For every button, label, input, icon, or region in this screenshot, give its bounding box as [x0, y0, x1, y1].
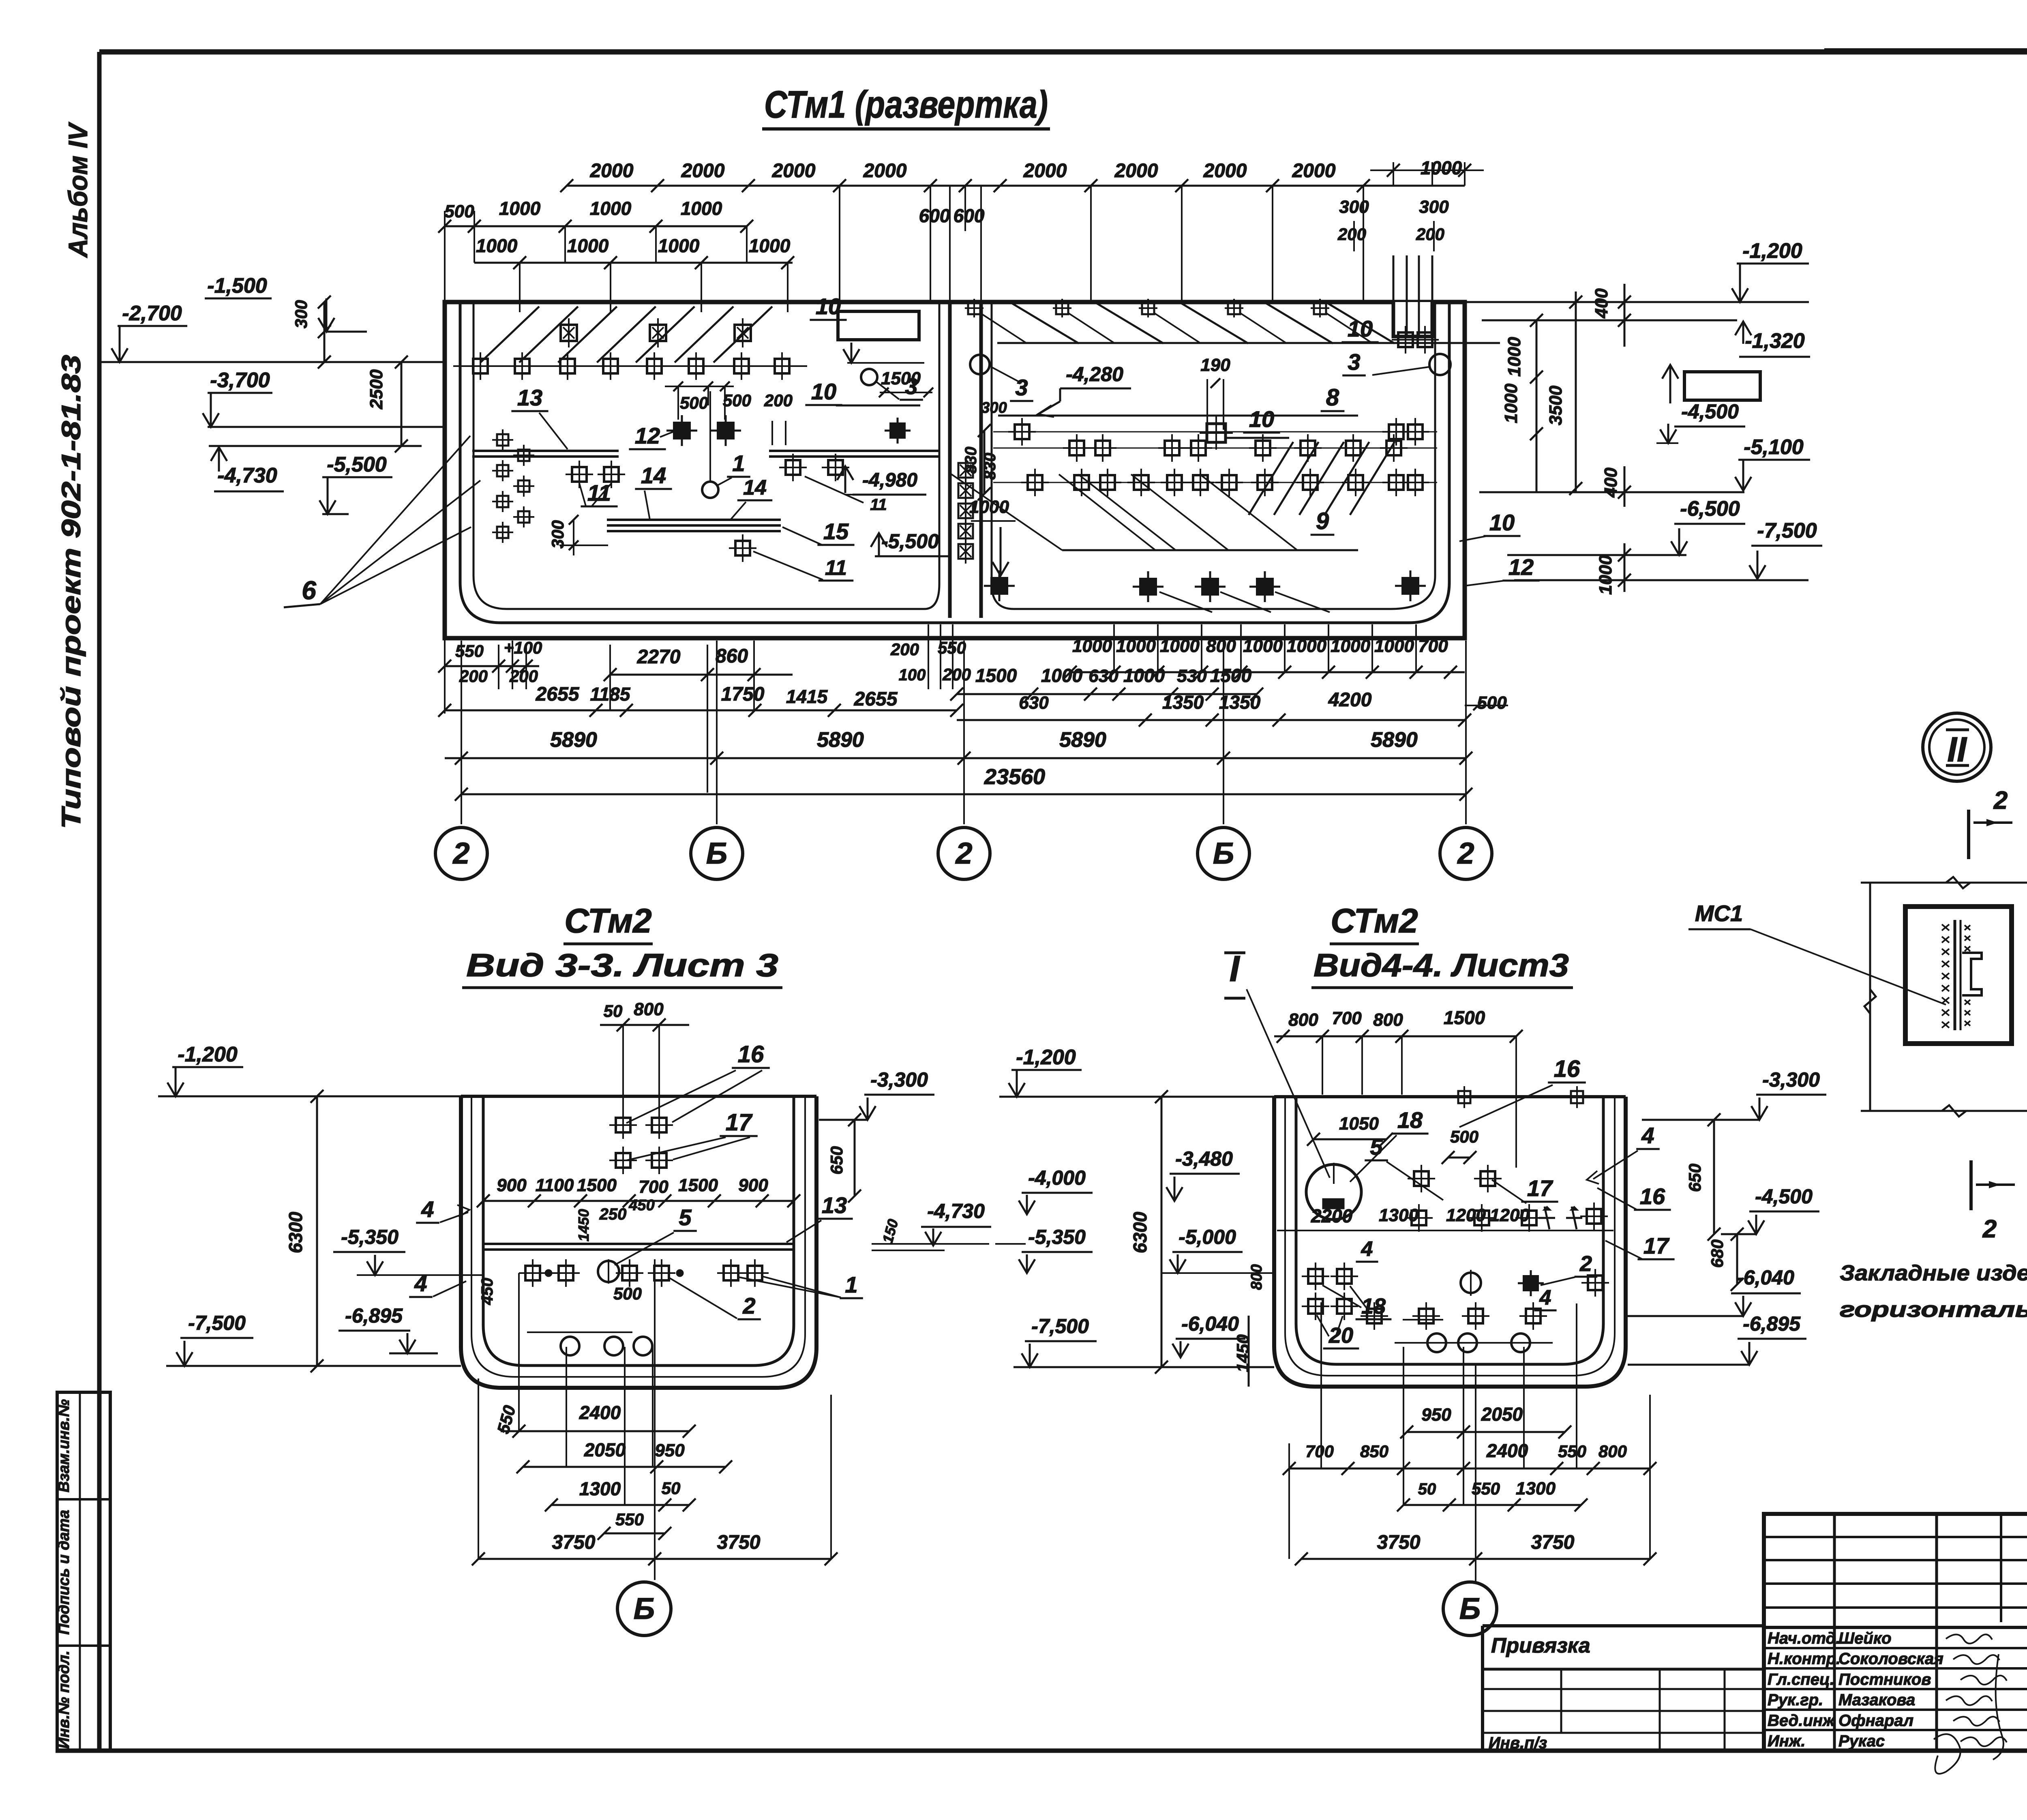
plates field right panel row0 — [1008, 416, 1429, 450]
svg-text:1000: 1000 — [476, 235, 518, 256]
svg-text:12: 12 — [1508, 554, 1534, 580]
svg-text:-5,350: -5,350 — [1028, 1226, 1086, 1248]
elevation -1,200 top right — [1465, 239, 1809, 302]
plates top view 4-4 — [1405, 1086, 1608, 1232]
elevation -2,700 — [99, 302, 445, 362]
svg-text:4: 4 — [1539, 1286, 1551, 1310]
svg-text:900: 900 — [497, 1175, 527, 1195]
elevation -6,895 view 4-4 — [1628, 1312, 1806, 1365]
svg-text:1500: 1500 — [678, 1175, 718, 1195]
label 17 view 4-4 — [1492, 1175, 1558, 1203]
svg-text:I: I — [1229, 949, 1240, 989]
svg-text:1500: 1500 — [1210, 665, 1252, 686]
svg-text:1500: 1500 — [1444, 1007, 1485, 1028]
svg-text:200: 200 — [1337, 225, 1366, 244]
label MC1 — [1688, 900, 1946, 1005]
dim row mid view 4-4 — [1277, 1205, 1613, 1230]
elevation -4,730 — [209, 446, 422, 491]
label 11 lower — [753, 551, 853, 581]
dim row 2000 series — [560, 157, 1484, 302]
svg-text:5890: 5890 — [550, 728, 597, 752]
svg-text:1000: 1000 — [1421, 157, 1462, 178]
svg-text:2400: 2400 — [1486, 1440, 1528, 1461]
top edge notch — [1393, 255, 1432, 337]
svg-text:-3,300: -3,300 — [870, 1068, 928, 1091]
dim 6300 view 3-3 — [285, 1090, 324, 1372]
svg-text:1000: 1000 — [1123, 665, 1165, 686]
plates column mid-left of joint — [958, 458, 973, 564]
label 13 — [511, 385, 568, 449]
dim 500 view 4-4 — [1442, 1127, 1478, 1164]
axis Б extension view 4-4 — [1475, 1364, 1476, 1582]
detail circle item I — [1306, 1163, 1361, 1220]
section mark 2 top — [1969, 787, 2012, 859]
svg-text:100: 100 — [899, 666, 926, 684]
svg-text:Типовой проект 902-1-81.83: Типовой проект 902-1-81.83 — [56, 355, 86, 829]
svg-text:1750: 1750 — [721, 684, 765, 705]
svg-text:МС1: МС1 — [1695, 900, 1743, 926]
svg-text:300: 300 — [981, 399, 1007, 416]
svg-text:400: 400 — [1601, 467, 1621, 498]
svg-text:200: 200 — [890, 640, 919, 659]
svg-text:10: 10 — [1249, 406, 1274, 432]
dim 500 500 item 12 — [665, 382, 751, 420]
svg-text:13: 13 — [517, 385, 542, 410]
svg-text:650: 650 — [1685, 1164, 1704, 1192]
svg-text:-5,000: -5,000 — [1178, 1226, 1236, 1248]
titleblock signatures — [1934, 1634, 2007, 1774]
bar item 13 right — [769, 451, 939, 457]
svg-text:2000: 2000 — [590, 160, 634, 182]
svg-text:800: 800 — [1288, 1010, 1318, 1030]
svg-text:Рук.гр.: Рук.гр. — [1768, 1691, 1823, 1709]
svg-text:1000: 1000 — [1504, 337, 1524, 377]
label 10 right panel top — [1341, 316, 1500, 343]
svg-text:2655: 2655 — [536, 684, 580, 705]
svg-text:2000: 2000 — [1203, 160, 1247, 182]
svg-text:1000: 1000 — [590, 198, 632, 219]
elevation -3,300 view 4-4 — [1642, 1068, 1826, 1120]
svg-text:2200: 2200 — [1311, 1205, 1353, 1226]
svg-text:1500: 1500 — [577, 1175, 617, 1195]
bottom dims mid cluster — [890, 624, 971, 689]
label 9 — [1062, 508, 1358, 550]
title СТм2 left — [564, 902, 653, 944]
dim row top view 4-4 — [1274, 1007, 1523, 1168]
svg-text:550: 550 — [455, 641, 484, 660]
plates row1 view 4-4 — [1302, 1263, 1609, 1297]
svg-text:-4,280: -4,280 — [1066, 363, 1123, 386]
plates pair under right bar — [779, 454, 849, 481]
svg-text:2: 2 — [1993, 787, 2008, 815]
holes circles view 4-4 — [1395, 1320, 1553, 1352]
embedded rectangle -4,500 — [1656, 365, 1760, 443]
left elevations view 3-3 — [158, 1043, 461, 1096]
dim 50 800 top view 3-3 — [600, 999, 689, 1119]
svg-text:800: 800 — [1598, 1442, 1627, 1461]
svg-text:500: 500 — [613, 1284, 642, 1303]
svg-text:5: 5 — [679, 1205, 692, 1230]
svg-text:3500: 3500 — [1546, 386, 1566, 425]
detail mark II circle — [1923, 713, 1991, 781]
elevation -4,980 — [805, 466, 926, 514]
left elevations view 4-4 — [999, 1046, 1274, 1097]
plates under top edge right panel — [965, 299, 1373, 343]
wall panel СТм1 outline — [445, 302, 1465, 638]
svg-text:1200: 1200 — [1446, 1205, 1486, 1225]
svg-text:1000: 1000 — [969, 497, 1009, 517]
elevation -4,730 view 3-3 — [872, 1200, 991, 1250]
svg-text:700: 700 — [1418, 636, 1448, 656]
svg-text:17: 17 — [1527, 1175, 1553, 1201]
svg-text:5890: 5890 — [1371, 728, 1418, 752]
svg-text:11: 11 — [825, 556, 847, 580]
svg-text:1000: 1000 — [1331, 636, 1370, 656]
svg-text:2000: 2000 — [1292, 160, 1336, 182]
plates field right panel row2 — [1021, 469, 1429, 496]
svg-text:-4,500: -4,500 — [1755, 1185, 1813, 1208]
svg-text:1300: 1300 — [579, 1478, 621, 1499]
elevation -3,300 view 3-3 — [819, 1068, 934, 1120]
axis mark 2 — [435, 827, 487, 879]
svg-text:-4,730: -4,730 — [927, 1200, 985, 1222]
svg-text:-4,000: -4,000 — [1028, 1166, 1086, 1189]
svg-text:16: 16 — [1554, 1056, 1580, 1082]
svg-text:1000: 1000 — [1116, 636, 1156, 656]
dim 400 vertical right lower — [1601, 466, 1631, 507]
svg-text:1100: 1100 — [536, 1175, 574, 1195]
svg-text:Б: Б — [1213, 836, 1234, 870]
svg-text:горизонтальной арматуре стен.: горизонтальной арматуре стен. — [1840, 1297, 2027, 1322]
crossed plates in hatch — [561, 318, 751, 347]
label 17 view 3-3 — [626, 1109, 758, 1160]
svg-text:50: 50 — [604, 1001, 623, 1020]
axis extension lines — [461, 641, 1466, 824]
anchor circle item 3 left — [970, 355, 1033, 401]
label 3 left panel — [861, 369, 923, 400]
shelf line view 3-3 — [483, 1244, 794, 1250]
dim 300 bar — [548, 515, 608, 555]
axis mark Б — [1443, 1582, 1497, 1636]
label 10 right panel centre — [1224, 406, 1289, 438]
blackened plate near joint — [885, 418, 911, 444]
svg-text:Постников: Постников — [1838, 1670, 1931, 1688]
svg-text:-4,500: -4,500 — [1681, 400, 1739, 423]
svg-text:2000: 2000 — [1114, 160, 1158, 182]
elevation -7,500 view 4-4 — [1013, 1315, 1274, 1367]
label 1 top — [717, 450, 750, 486]
svg-text:Вед.инж: Вед.инж — [1768, 1712, 1836, 1730]
dim 1500 mid — [879, 369, 933, 397]
svg-text:200: 200 — [1416, 225, 1444, 244]
svg-text:530: 530 — [1177, 666, 1207, 686]
label 17 view 4-4 right — [1605, 1233, 1675, 1259]
svg-text:Б: Б — [1459, 1592, 1481, 1625]
svg-text:600: 600 — [954, 205, 985, 226]
svg-text:2400: 2400 — [579, 1402, 621, 1423]
blackened plates bottom right panel — [984, 570, 1426, 602]
plates pair item 11 — [566, 461, 625, 488]
title block outer — [1764, 1514, 2027, 1751]
svg-text:800: 800 — [1206, 636, 1236, 656]
label 5 view 3-3 — [615, 1205, 697, 1265]
through lines right panel rows — [993, 432, 1437, 482]
svg-text:Подпись и дата: Подпись и дата — [56, 1510, 73, 1635]
svg-text:-5,500: -5,500 — [881, 530, 939, 553]
svg-text:Мазакова: Мазакова — [1838, 1691, 1915, 1709]
elevation -3,700 — [203, 369, 445, 427]
label 10 left panel top — [810, 294, 846, 320]
svg-text:Н.контр.: Н.контр. — [1768, 1650, 1841, 1668]
plates row2 view 4-4 — [1302, 1293, 1547, 1330]
svg-text:-3,300: -3,300 — [1762, 1068, 1820, 1091]
svg-text:830: 830 — [962, 447, 980, 474]
axis Б extension view 3-3 — [654, 1259, 656, 1580]
label 12 outside right — [1464, 554, 1540, 586]
label 2 view 3-3 — [668, 1277, 761, 1319]
elevation -4,280 — [1038, 363, 1131, 417]
svg-text:20: 20 — [1328, 1323, 1353, 1348]
elevation -7,500 top drawing — [1514, 519, 1822, 580]
svg-text:-2,700: -2,700 — [122, 302, 182, 325]
svg-text:1000: 1000 — [1287, 636, 1326, 656]
anchor x marks MC1 — [1942, 924, 1970, 1028]
hatch area right panel top — [1010, 302, 1395, 343]
svg-text:800: 800 — [634, 999, 664, 1019]
svg-text:200: 200 — [942, 665, 971, 684]
svg-text:-3,480: -3,480 — [1175, 1147, 1233, 1170]
view 3-3 wall section outline — [461, 1096, 816, 1388]
svg-text:500: 500 — [444, 202, 474, 221]
wall plates column left — [492, 429, 534, 543]
svg-text:950: 950 — [1421, 1405, 1451, 1425]
svg-text:2655: 2655 — [854, 688, 898, 710]
svg-text:18: 18 — [1397, 1107, 1423, 1133]
svg-text:50: 50 — [662, 1479, 681, 1498]
svg-text:2050: 2050 — [584, 1439, 626, 1460]
svg-text:1350: 1350 — [1219, 692, 1261, 713]
dim 1450 view 4-4 — [1233, 1316, 1252, 1387]
embedded plate MC1 in patch — [1905, 907, 2012, 1044]
svg-text:-6,040: -6,040 — [1181, 1312, 1239, 1335]
svg-text:14: 14 — [743, 476, 767, 499]
anchor circle item 1 — [702, 391, 718, 498]
dim 450 and 250 and 500 view 3-3 — [478, 1197, 655, 1305]
svg-text:-1,200: -1,200 — [1016, 1046, 1076, 1069]
plates right column right panel — [1392, 326, 1439, 354]
svg-text:-5,500: -5,500 — [327, 453, 387, 476]
svg-text:4: 4 — [421, 1196, 434, 1222]
svg-text:10: 10 — [1489, 510, 1515, 535]
svg-text:680: 680 — [1708, 1239, 1727, 1268]
svg-text:-5,100: -5,100 — [1744, 435, 1804, 459]
section I mark — [1224, 949, 1330, 1178]
svg-text:Взам.инв.№: Взам.инв.№ — [56, 1399, 73, 1492]
svg-text:8: 8 — [1326, 384, 1339, 411]
dim 1000 vertical bottom right — [1596, 543, 1631, 595]
svg-text:14: 14 — [641, 463, 666, 488]
svg-text:2: 2 — [452, 836, 469, 870]
elevation -4,000 view 4-4 — [1019, 1166, 1093, 1214]
svg-text:1: 1 — [845, 1272, 857, 1297]
svg-text:II: II — [1947, 730, 1967, 769]
svg-text:-4,980: -4,980 — [862, 469, 917, 491]
svg-text:1450: 1450 — [575, 1209, 592, 1241]
extension lines bottom view 4-4 — [1289, 1302, 1650, 1559]
bottom dim row 1000 series right panel — [1064, 624, 1465, 679]
label 13 view 3-3 — [786, 1192, 853, 1242]
crossed anchor marks item 4 — [1539, 1206, 1582, 1229]
label 6 with leaders — [284, 436, 480, 607]
titleblock roles and names — [1768, 1629, 1943, 1750]
svg-text:3750: 3750 — [552, 1532, 596, 1553]
svg-text:1000: 1000 — [1072, 636, 1112, 656]
svg-text:900: 900 — [738, 1175, 768, 1195]
line under label 8 — [998, 415, 1358, 417]
elevation -5,350 view 3-3 — [333, 1226, 483, 1275]
svg-text:1000: 1000 — [1596, 555, 1616, 595]
svg-text:-1,200: -1,200 — [1742, 239, 1802, 263]
svg-text:190: 190 — [1200, 355, 1230, 375]
dim 2270 and 860 — [604, 641, 793, 793]
svg-text:1350: 1350 — [1162, 692, 1204, 713]
svg-text:2000: 2000 — [863, 160, 907, 182]
elevation -5,000 view 4-4 — [1161, 1226, 1274, 1273]
svg-text:550: 550 — [1558, 1442, 1586, 1461]
svg-text:300: 300 — [291, 300, 311, 328]
svg-text:2500: 2500 — [366, 369, 386, 409]
svg-text:Инв.№ подл.: Инв.№ подл. — [56, 1651, 73, 1749]
svg-text:200: 200 — [459, 667, 488, 686]
axis mark Б — [691, 827, 743, 879]
svg-text:-4,730: -4,730 — [217, 464, 277, 487]
svg-text:11: 11 — [870, 496, 887, 514]
svg-text:630: 630 — [1088, 666, 1118, 686]
plates row middle view 3-3 — [519, 1259, 769, 1287]
dim 400 vertical right top — [1592, 284, 1631, 347]
svg-text:300: 300 — [548, 520, 567, 549]
svg-text:Нач.отд.: Нач.отд. — [1768, 1629, 1840, 1647]
svg-text:700: 700 — [639, 1177, 669, 1197]
label 14 upper — [635, 463, 672, 520]
middle wall joint — [950, 302, 981, 618]
svg-text:3: 3 — [1015, 375, 1028, 400]
svg-text:1000: 1000 — [1160, 636, 1200, 656]
bottom dim row 2655 1185 1750 1415 2655 — [438, 684, 963, 717]
svg-text:300: 300 — [1419, 197, 1449, 217]
svg-text:Закладные изделия (зачерненные: Закладные изделия (зачерненные) приварит… — [1840, 1261, 2027, 1285]
label 12 — [629, 423, 676, 449]
axis mark Б — [1198, 827, 1249, 879]
svg-text:850: 850 — [1360, 1442, 1388, 1461]
svg-text:СТм2: СТм2 — [1331, 902, 1418, 940]
label 18 view 4-4 lower — [1322, 1285, 1391, 1319]
elevation -4,500 view 4-4 — [1721, 1185, 1819, 1234]
elevation -6,040 view 4-4 right — [1628, 1266, 1801, 1316]
svg-text:23560: 23560 — [984, 765, 1045, 789]
svg-text:1000: 1000 — [1041, 665, 1083, 686]
svg-text:500: 500 — [1450, 1127, 1478, 1146]
dim 1050 view 4-4 — [1307, 1114, 1393, 1146]
svg-text:Офнарал: Офнарал — [1838, 1712, 1913, 1730]
label 4 view 4-4 top right — [1587, 1123, 1660, 1184]
dim 680 view 4-4 right — [1708, 1228, 1744, 1291]
title block main rows — [1764, 1627, 2027, 1751]
elevation -1,320 — [1482, 320, 1810, 357]
bottom dim row 630 1350 1350 4200 500 — [957, 689, 1508, 727]
axis mark Б — [617, 1582, 671, 1636]
svg-text:-7,500: -7,500 — [188, 1312, 246, 1334]
svg-text:-7,500: -7,500 — [1031, 1315, 1089, 1338]
svg-text:2000: 2000 — [681, 160, 725, 182]
svg-text:9: 9 — [1316, 508, 1329, 534]
svg-text:4: 4 — [1641, 1123, 1654, 1148]
svg-text:700: 700 — [1332, 1008, 1362, 1028]
leaders blackened plates — [1159, 592, 1330, 612]
label 14 lower — [730, 476, 772, 521]
detail II wall patch outline — [1861, 855, 2027, 1131]
label 16 view 4-4 right — [1597, 1183, 1671, 1210]
svg-text:1000: 1000 — [1374, 636, 1414, 656]
dim 600 600 over joint — [919, 186, 985, 302]
dim 6300 view 4-4 — [1129, 1090, 1168, 1374]
label 11 left — [579, 480, 618, 506]
svg-text:17: 17 — [726, 1109, 753, 1136]
binding extension table — [1483, 1626, 1764, 1751]
label 5 view 4-4 — [1365, 1134, 1443, 1200]
dim row 1000 left lower — [474, 226, 794, 312]
svg-text:200: 200 — [764, 391, 793, 410]
svg-text:1200: 1200 — [1490, 1205, 1530, 1225]
svg-text:-1,320: -1,320 — [1745, 329, 1805, 353]
svg-text:950: 950 — [655, 1441, 685, 1460]
dim 2500 vertical left — [366, 356, 408, 452]
label 1 view 3-3 — [739, 1272, 863, 1298]
bottom dims view 3-3 — [472, 1402, 838, 1565]
title Вид 4-4. Лист 3 — [1311, 947, 1573, 988]
label 18 upper view 4-4 — [1350, 1107, 1429, 1182]
title СТм2 middle — [1330, 902, 1419, 944]
svg-text:Альбом IV: Альбом IV — [63, 122, 93, 258]
svg-text:15: 15 — [823, 519, 849, 544]
label 15 — [782, 519, 855, 545]
svg-text:-6,500: -6,500 — [1680, 497, 1740, 521]
svg-text:800: 800 — [1248, 1264, 1265, 1290]
svg-text:Гл.спец.: Гл.спец. — [1768, 1670, 1834, 1688]
svg-text:6: 6 — [302, 576, 316, 605]
dim 190 — [1200, 355, 1230, 430]
elevation -5,500 left — [319, 453, 392, 514]
svg-text:2: 2 — [955, 836, 972, 870]
label 2 view 4-4 — [1541, 1252, 1597, 1285]
svg-text:6300: 6300 — [1129, 1211, 1151, 1253]
opening rectangle top — [838, 311, 924, 363]
svg-text:Б: Б — [706, 836, 727, 870]
svg-text:600: 600 — [919, 205, 950, 226]
dim 1000 right panel — [969, 497, 1016, 576]
svg-text:450: 450 — [478, 1278, 496, 1306]
hatch boundary line / through row line — [453, 365, 807, 367]
svg-text:1185: 1185 — [590, 684, 631, 705]
dim 650 view 4-4 right — [1685, 1113, 1721, 1241]
svg-text:Б: Б — [634, 1592, 655, 1625]
label 4 lower view 3-3 — [409, 1271, 466, 1297]
svg-text:4: 4 — [1361, 1237, 1373, 1261]
label 10 outside right — [1459, 510, 1521, 541]
svg-text:1000: 1000 — [1501, 384, 1521, 423]
svg-text:Вид4-4. Лист3: Вид4-4. Лист3 — [1313, 947, 1569, 983]
dim 300 830 830 right of joint — [962, 399, 1007, 500]
